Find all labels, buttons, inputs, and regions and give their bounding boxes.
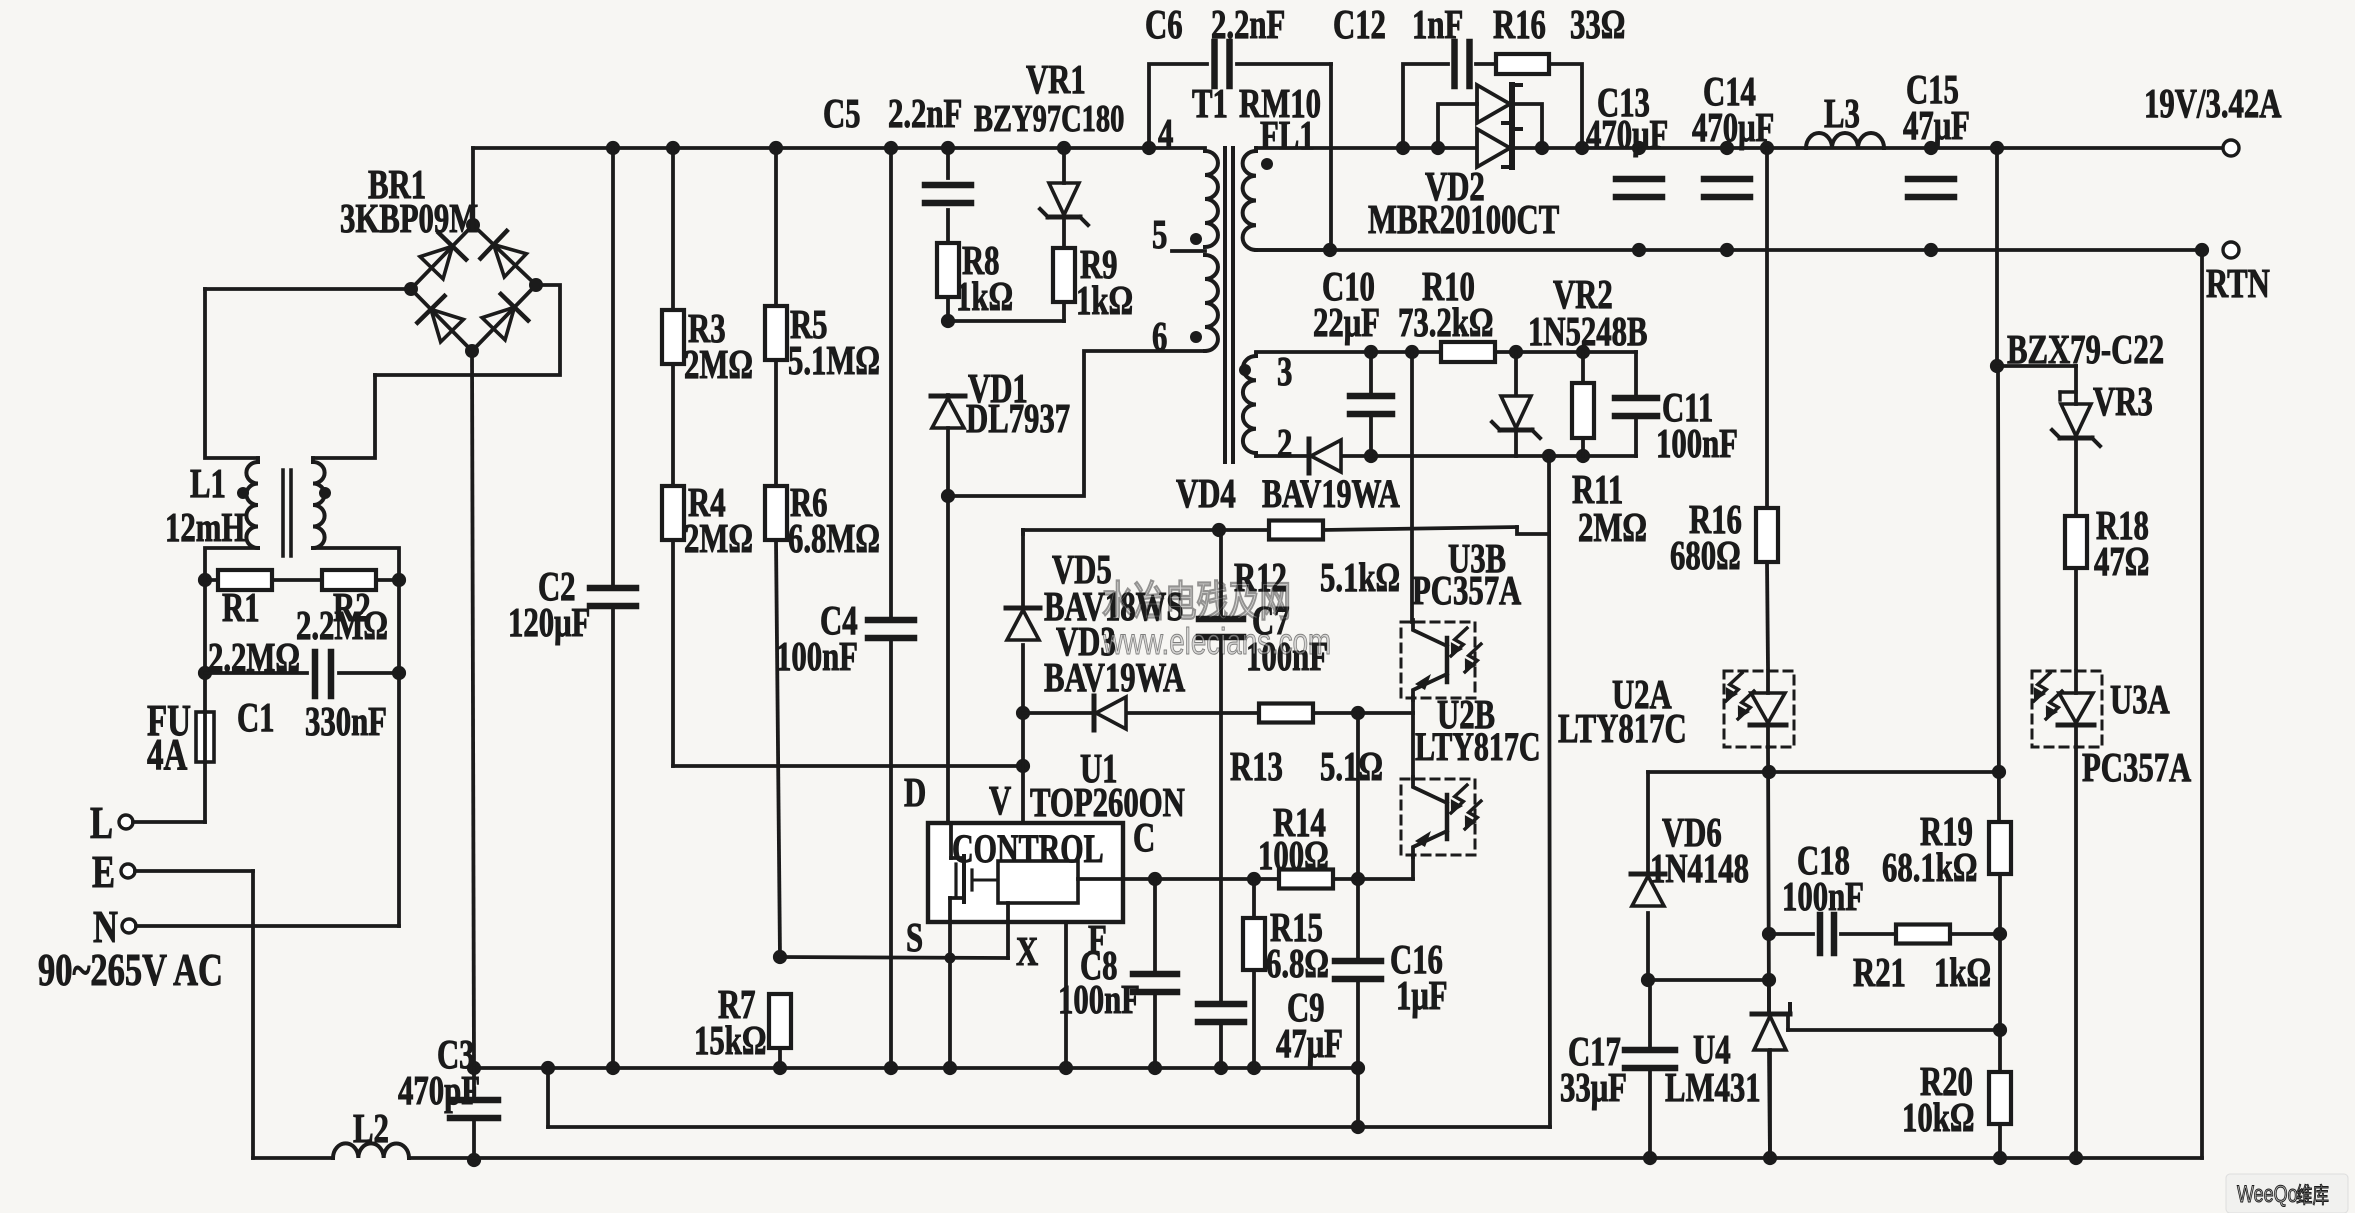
svg-text:水冶电残及网: 水冶电残及网: [1102, 578, 1291, 626]
node BR1 bottom: [465, 344, 479, 358]
wire FL1 bottom: [1256, 248, 1330, 252]
label F: [1088, 917, 1107, 962]
wire X pin: [1006, 903, 1010, 958]
node R11 bottom: [1576, 449, 1590, 463]
node R14 mid: [1351, 872, 1365, 886]
svg-text:S: S: [906, 915, 923, 960]
capacitor C3: [450, 1100, 498, 1118]
wire BR1 left: [205, 287, 411, 291]
node C2 top: [606, 141, 620, 155]
resistor R3: [662, 310, 684, 364]
node C5 top: [941, 141, 955, 155]
label N: [93, 901, 118, 952]
wire out19 column: [1997, 148, 2000, 1158]
pin FL1 dot: [1261, 158, 1273, 170]
node R13 right: [1351, 706, 1365, 720]
svg-text:1kΩ: 1kΩ: [1076, 278, 1133, 323]
shunt ref U4 LM431: [1752, 1004, 1790, 1050]
label VD3: [1056, 619, 1116, 664]
svg-text:68.1kΩ: 68.1kΩ: [1882, 845, 1977, 890]
wire U4 ref row: [1788, 1014, 2000, 1030]
resistor R20: [1989, 1072, 2011, 1124]
svg-text:E: E: [92, 846, 115, 897]
label C1: [237, 695, 275, 740]
svg-text:CONTROL: CONTROL: [952, 826, 1104, 871]
svg-text:VR1: VR1: [1026, 57, 1086, 102]
wire VD2 cathode to output: [1512, 146, 2230, 150]
node BR1 top: [466, 218, 480, 232]
label 3KBP09M: [340, 196, 478, 241]
inductor L1 right: [313, 458, 325, 548]
wire pin2 rail: [1342, 454, 1636, 458]
wire L1 right top: [313, 375, 375, 458]
node C4 bottom: [884, 1061, 898, 1075]
svg-text:6: 6: [1152, 314, 1167, 359]
wire C1 row: [205, 671, 399, 675]
node C4 top: [884, 141, 898, 155]
wire earth rail: [409, 1156, 2202, 1160]
node C15 top: [1924, 141, 1938, 155]
label U2A: [1612, 672, 1672, 717]
label 470μF: [1692, 105, 1774, 150]
resistor R5: [765, 306, 787, 360]
wire pin2: [1256, 453, 1306, 456]
node out19v branch: [1990, 141, 2004, 155]
label BZX79-C22: [2007, 327, 2164, 372]
svg-text:PC357A: PC357A: [1412, 568, 1521, 613]
svg-text:D: D: [904, 770, 926, 815]
label L2: [353, 1106, 389, 1151]
svg-text:90~265V AC: 90~265V AC: [38, 944, 223, 995]
wire C4 column: [889, 148, 893, 1068]
wire BR1 minus drop: [472, 351, 474, 1068]
capacitor C5: [925, 185, 971, 203]
label 2MΩ: [684, 342, 753, 387]
label VR2: [1553, 272, 1613, 317]
node C8 top: [1148, 872, 1162, 886]
wire FL1 top: [1254, 148, 1258, 151]
label VD2: [1425, 164, 1485, 209]
label R20: [1920, 1059, 1973, 1104]
terminal N: [122, 919, 136, 933]
wire R11 stub: [1581, 352, 1585, 456]
wire R1R2 row: [205, 578, 399, 582]
wire R16b column: [1767, 148, 1768, 668]
label C14: [1703, 69, 1756, 114]
label 6: [1152, 314, 1167, 359]
wire bias-return vertical: [1549, 456, 1550, 1127]
resistor R18: [2065, 516, 2087, 568]
wire R13 to C16: [1356, 713, 1360, 879]
label R21: [1853, 950, 1906, 995]
wire C11 right loop bottom: [1634, 418, 1638, 456]
node R15 bottom: [1247, 1061, 1261, 1075]
node C7 top: [1212, 523, 1226, 537]
wire VR3 column: [2074, 366, 2078, 668]
label 1N5248B: [1528, 309, 1648, 354]
label C4: [820, 598, 858, 643]
svg-text:PC357A: PC357A: [2082, 745, 2191, 790]
label R12: [1234, 555, 1287, 600]
label FU: [147, 697, 191, 746]
node C14 bot: [1720, 243, 1734, 257]
IC U1 TOP260ON: [928, 823, 1123, 922]
svg-text:L3: L3: [1824, 91, 1860, 136]
wire gnd to loop: [546, 1068, 550, 1127]
zener VR1: [1040, 183, 1088, 225]
svg-text:L1: L1: [190, 461, 226, 506]
node snubber right: [1575, 141, 1589, 155]
label C6: [1145, 2, 1183, 47]
node gnd-loop corner: [541, 1061, 555, 1075]
label 2MΩ: [684, 516, 753, 561]
terminal L: [119, 815, 133, 829]
wire opto mid link: [1411, 697, 1415, 779]
svg-text:U3A: U3A: [2110, 677, 2170, 722]
label 19V/3.42A: [2144, 81, 2281, 126]
svg-text:VD4: VD4: [1176, 471, 1236, 516]
svg-text:19V/3.42A: 19V/3.42A: [2144, 81, 2281, 126]
wire U2A column: [1768, 747, 1770, 1158]
node R2 right: [392, 573, 406, 587]
capacitor C13: [1616, 179, 1662, 197]
svg-text:15kΩ: 15kΩ: [694, 1018, 766, 1063]
diode VD5: [1006, 608, 1040, 640]
label 33μF: [1560, 1065, 1627, 1110]
node C10 bottom: [1364, 449, 1378, 463]
wire C pin row: [1123, 877, 1413, 881]
label LTY817C: [1558, 706, 1687, 751]
label C11: [1662, 385, 1713, 430]
resistor R14: [1279, 870, 1333, 889]
label 1kΩ: [1076, 278, 1133, 323]
wire C pin inner: [1078, 877, 1123, 881]
svg-text:LTY817C: LTY817C: [1558, 706, 1687, 751]
label VD5: [1052, 547, 1112, 592]
node C1 left: [198, 666, 212, 680]
label C7: [1252, 598, 1290, 643]
node U3A bottom: [2069, 1151, 2083, 1165]
label TOP260ON: [1030, 780, 1185, 825]
label C17: [1568, 1029, 1621, 1074]
label 1N4148: [1650, 846, 1749, 891]
resistor R7: [769, 994, 791, 1048]
resistor R1: [218, 570, 272, 590]
node R15 top: [1247, 872, 1261, 886]
svg-text:6.8Ω: 6.8Ω: [1266, 941, 1329, 986]
wire R2C1 link: [397, 580, 401, 673]
node R16b top: [1760, 141, 1774, 155]
svg-text:5: 5: [1152, 212, 1167, 257]
svg-text:2.2MΩ: 2.2MΩ: [208, 635, 300, 680]
node S-X join: [945, 953, 956, 964]
node C15 bot: [1924, 243, 1938, 257]
svg-text:4: 4: [1158, 111, 1173, 156]
node C14 top: [1720, 141, 1734, 155]
label 5: [1152, 212, 1167, 257]
label C: [1133, 815, 1155, 860]
label R14: [1273, 800, 1326, 845]
label 2.2MΩ: [296, 603, 388, 648]
label R8: [962, 238, 1000, 283]
bridge BR1 D2: [481, 231, 527, 277]
svg-text:BZX79-C22: BZX79-C22: [2007, 327, 2164, 372]
resistor R6: [765, 486, 787, 540]
svg-text:2MΩ: 2MΩ: [1578, 505, 1647, 550]
capacitor C7: [1199, 619, 1243, 637]
wire U4 column: [1769, 980, 1770, 1158]
wire C16 column: [1356, 879, 1360, 1068]
wire C11 right loop top: [1634, 352, 1638, 396]
svg-text:100Ω: 100Ω: [1258, 833, 1329, 878]
svg-text:33Ω: 33Ω: [1570, 2, 1625, 47]
label 4: [1158, 111, 1173, 156]
label R11: [1572, 467, 1623, 512]
label 5.1kΩ: [1320, 555, 1400, 600]
capacitor C10: [1350, 396, 1392, 414]
capacitor C12: [1455, 42, 1470, 86]
node VD6 bottom: [1641, 973, 1655, 987]
label 5.1Ω: [1320, 744, 1383, 789]
node R11 top: [1576, 345, 1590, 359]
wire BR1 right loop: [375, 285, 560, 375]
svg-text:5.1MΩ: 5.1MΩ: [788, 338, 880, 383]
label 100nF: [1656, 421, 1738, 466]
label 68.1kΩ: [1882, 845, 1977, 890]
node C2 bottom: [606, 1061, 620, 1075]
capacitor C14: [1704, 179, 1750, 197]
svg-text:73.2kΩ: 73.2kΩ: [1398, 300, 1493, 345]
label R10: [1422, 264, 1475, 309]
label R1: [222, 585, 260, 630]
svg-text:V: V: [989, 778, 1011, 823]
wire R4 to V pin: [673, 764, 1023, 768]
capacitor C2: [590, 588, 636, 606]
label 2: [1277, 421, 1292, 466]
wire U3A column: [2074, 747, 2078, 1158]
svg-text:5.1Ω: 5.1Ω: [1320, 744, 1383, 789]
core L1: [283, 470, 291, 556]
label MBR20100CT: [1368, 197, 1559, 242]
zener VR3: [2052, 392, 2100, 446]
wire pin5 stub: [1172, 249, 1205, 253]
node C6-RTN: [1323, 243, 1337, 257]
label X: [1016, 929, 1038, 974]
wire earth rail left: [253, 1156, 333, 1160]
svg-text:6.8MΩ: 6.8MΩ: [788, 516, 880, 561]
label 1kΩ: [956, 274, 1013, 319]
svg-text:1μF: 1μF: [1396, 973, 1448, 1018]
svg-text:R16: R16: [1493, 2, 1546, 47]
label LM431: [1665, 1065, 1761, 1110]
label U1: [1080, 746, 1118, 791]
label R6: [790, 480, 828, 525]
label 100nF: [776, 634, 858, 679]
svg-text:T1: T1: [1192, 81, 1228, 126]
svg-text:33μF: 33μF: [1560, 1065, 1627, 1110]
resistor R10: [1441, 342, 1495, 362]
node C3 bottom: [467, 1153, 481, 1167]
svg-text:10kΩ: 10kΩ: [1902, 1095, 1974, 1140]
node BR1 right: [529, 278, 543, 292]
label L3: [1824, 91, 1860, 136]
wire U3B collector: [1410, 352, 1414, 622]
wire primary DC+ bus: [473, 146, 1205, 150]
optocoupler U3B: [1401, 620, 1481, 700]
label 2MΩ: [1578, 505, 1647, 550]
capacitor C8: [1133, 974, 1177, 992]
label C18: [1797, 838, 1850, 883]
label 90~265V AC: [38, 944, 223, 995]
label C3: [437, 1032, 475, 1077]
diode VD2 upper: [1477, 85, 1521, 123]
wire opto emitter2: [1411, 858, 1415, 879]
bridge BR1 D1: [420, 233, 466, 279]
resistor R15: [1243, 918, 1265, 970]
svg-text:12mH: 12mH: [165, 505, 245, 550]
label R18: [2096, 503, 2149, 548]
wire C8 column: [1153, 879, 1157, 1068]
pin 5 dot: [1190, 233, 1202, 245]
svg-text:TOP260ON: TOP260ON: [1030, 780, 1185, 825]
node bias-return joint: [1351, 1120, 1365, 1134]
label 73.2kΩ: [1398, 300, 1493, 345]
svg-text:470μF: 470μF: [1586, 112, 1668, 157]
label S: [906, 915, 923, 960]
label 3: [1277, 349, 1292, 394]
capacitor C17: [1625, 1050, 1675, 1068]
terminal +19V: [2223, 140, 2239, 156]
wire C16 drop: [1356, 1068, 1360, 1127]
label BAV18WS: [1044, 584, 1183, 629]
label C15: [1906, 67, 1959, 112]
label C12: [1333, 2, 1386, 47]
node F bottom: [1059, 1061, 1073, 1075]
node C9 bottom: [1214, 1061, 1228, 1075]
label LTY817C: [1415, 724, 1541, 769]
label PC357A: [2082, 745, 2191, 790]
label L: [90, 797, 113, 848]
label C16: [1390, 937, 1443, 982]
node R19 top fb: [1992, 765, 2006, 779]
label 120μF: [508, 600, 590, 645]
label 2.2nF: [1211, 2, 1285, 47]
label 1nF: [1412, 2, 1463, 47]
wire RTN right drop: [2200, 250, 2204, 1158]
wire fb row: [1648, 770, 1999, 774]
label R15: [1270, 905, 1323, 950]
label 47μF: [1276, 1021, 1343, 1066]
label VD6: [1662, 810, 1722, 855]
label 6.8MΩ: [788, 516, 880, 561]
label BR1: [368, 162, 426, 207]
label 100nF: [1782, 874, 1864, 919]
capacitor C4: [868, 620, 914, 638]
svg-text:BAV19WA: BAV19WA: [1262, 471, 1400, 516]
label 100nF: [1246, 634, 1328, 679]
diode VD6: [1631, 874, 1665, 906]
wire L1 left top: [205, 289, 258, 458]
pin 4 polarity: [0, 0, 1, 1]
winding bias: [1243, 356, 1256, 453]
svg-text:680Ω: 680Ω: [1670, 533, 1741, 578]
node V wire: [1016, 759, 1030, 773]
fuse FU: [196, 712, 214, 762]
label 680Ω: [1670, 533, 1741, 578]
node VD3 left: [1016, 706, 1030, 720]
bridge BR1 D3: [417, 296, 463, 342]
node BZX branch: [1990, 359, 2004, 373]
label BAV19WA: [1044, 655, 1185, 700]
wire L: [133, 820, 205, 824]
wire R3R4 column: [671, 148, 675, 766]
label 10kΩ: [1902, 1095, 1974, 1140]
winding FL1: [1243, 151, 1256, 250]
resistor R11: [1572, 383, 1594, 438]
label VD4: [1176, 471, 1236, 516]
diode VD2 lower: [1477, 129, 1521, 167]
label C5: [823, 91, 861, 136]
label R16: [1493, 2, 1546, 47]
label C2: [538, 564, 576, 609]
wire C10 stub: [1369, 352, 1373, 456]
pin 6 dot: [1190, 331, 1202, 343]
optocoupler U2B: [1401, 777, 1481, 857]
watermark center: [1102, 578, 1331, 662]
svg-text:L: L: [90, 797, 113, 848]
wire F pin: [1064, 922, 1068, 1068]
capacitor C11: [1615, 398, 1657, 416]
svg-text:2MΩ: 2MΩ: [684, 516, 753, 561]
node D col bottom: [943, 1061, 957, 1075]
svg-text:3KBP09M: 3KBP09M: [340, 196, 478, 241]
svg-text:1N4148: 1N4148: [1650, 846, 1749, 891]
svg-text:L2: L2: [353, 1106, 389, 1151]
label 47Ω: [2094, 539, 2149, 584]
wire VR2 stub: [1514, 352, 1518, 456]
svg-text:2.2nF: 2.2nF: [1211, 2, 1285, 47]
wire L fuse column: [203, 580, 207, 822]
svg-text:R21: R21: [1853, 950, 1906, 995]
wire primary GND bus: [474, 1066, 1358, 1070]
node C8 bottom: [1148, 1061, 1162, 1075]
svg-text:100nF: 100nF: [1058, 977, 1140, 1022]
label R2: [333, 585, 371, 630]
capacitor C18: [1820, 915, 1834, 953]
node VD2 upper anode: [1431, 141, 1445, 155]
label 22μF: [1313, 300, 1380, 345]
wire bias return line: [548, 1125, 1550, 1129]
label 4A: [147, 731, 187, 780]
svg-text:3: 3: [1277, 349, 1292, 394]
wire snubber loop: [1403, 64, 1582, 148]
wire VD6-U4 row: [1648, 978, 1769, 982]
label 1kΩ: [1934, 950, 1991, 995]
diode VD3: [1094, 696, 1126, 730]
node C16 bottom/corner: [1351, 1061, 1365, 1075]
node R7 top / S wire: [773, 950, 787, 964]
node VD6-C17 right: [1762, 973, 1776, 987]
wire VD6 column: [1646, 772, 1650, 980]
inductor L1 left: [246, 458, 258, 548]
resistor R4: [662, 486, 684, 540]
label RTN: [2206, 261, 2270, 306]
label D: [904, 770, 926, 815]
resistor R21: [1896, 925, 1950, 944]
label R3: [688, 306, 726, 351]
label V: [989, 778, 1011, 823]
wire C2 column: [611, 148, 615, 1068]
